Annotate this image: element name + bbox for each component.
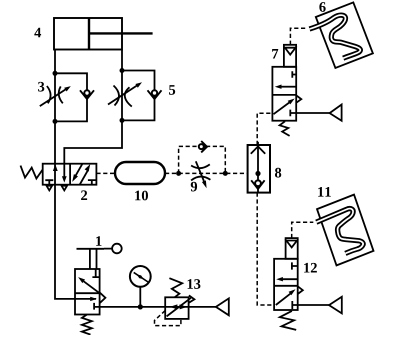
valve V12 pilot head box: [286, 238, 298, 259]
valve 8 up chevron: [251, 146, 265, 153]
regulator 13 spring: [169, 278, 182, 297]
pilot dashed wire 8 down to valve 12: [257, 193, 274, 305]
node dot valve3 bottom: [53, 119, 58, 124]
valve V12 exhaust triangle: [329, 297, 342, 314]
check valve of 9: [199, 141, 208, 152]
sensor 6 frame: [316, 2, 373, 68]
valve V12 upper left arrow: [276, 277, 298, 281]
valve V1 spring: [82, 315, 92, 335]
exhaust triangle bottom line: [216, 298, 229, 315]
flow control valve 5 loop: [122, 71, 155, 121]
valve V12 lower diagonal arrow: [276, 289, 296, 305]
valve V7 spring: [280, 121, 290, 136]
valve V7 exit chevron: [296, 95, 301, 102]
node dot valve5 bottom: [120, 118, 125, 123]
node dot gauge: [138, 304, 143, 309]
wire right leg from cylinder to valve 2 top: [64, 50, 122, 164]
cylinder C4 body: [54, 18, 153, 50]
dashed wire 10 to 8: [165, 172, 248, 174]
throttle 9 bypass dashed loop: [179, 146, 226, 173]
label 9: [191, 182, 197, 192]
sensor 11 tube: [316, 209, 363, 254]
pilot dashed wire 8 up to valve 7: [257, 113, 272, 145]
valve V7 main body: [272, 67, 296, 121]
label 3: [38, 82, 44, 92]
valve V2 body: [43, 164, 97, 185]
shuttle valve 8 body: [248, 145, 270, 193]
label 4: [34, 28, 41, 38]
label 1: [96, 236, 101, 246]
valve V7 exhaust triangle: [330, 105, 342, 121]
valve V2 exhaust triangle 1: [47, 186, 53, 191]
valve V7 upper left arrow: [275, 85, 296, 89]
valve V2 blocked port T right: [88, 180, 96, 185]
label 11: [318, 187, 331, 197]
valve V2 blocked port T left: [45, 180, 53, 185]
regulator 13 body: [165, 297, 188, 319]
check valve of 8: [251, 180, 264, 189]
pilot dashed wire valve2 to receiver 10: [96, 172, 115, 174]
valve V2 diagonal arrow B (head top-right): [80, 164, 91, 185]
node dot valve3 top: [53, 71, 58, 76]
label 12: [304, 263, 317, 273]
valve V2 spring: [21, 166, 43, 179]
node dot in valve 8: [255, 171, 260, 176]
valve V7 lower diagonal arrow: [274, 99, 295, 115]
valve V7 nozzle triangle: [285, 48, 296, 55]
valve V1 main body: [75, 269, 100, 315]
label 8: [275, 168, 281, 178]
valve V1 port T and bottom output wire: [94, 303, 216, 310]
throttle of 5: [108, 82, 142, 106]
label 10: [135, 191, 148, 201]
valve V2 exhaust triangle 2: [62, 186, 68, 191]
valve V12 exit chevron: [298, 286, 303, 294]
valve V1 upper diagonal arrow: [78, 277, 100, 293]
receiver 10: [115, 162, 165, 184]
label 6: [319, 2, 325, 12]
flow control valve 3 loop: [55, 73, 87, 121]
valve 8 internal line: [257, 142, 259, 193]
valve V2 down arrow: [62, 164, 67, 183]
valve V2 diagonal arrow A (head bottom-left): [72, 164, 82, 182]
node dot left of throttle 9: [176, 171, 181, 176]
label 5: [169, 85, 175, 95]
pilot dashed wire 6 to valve 7: [290, 28, 307, 45]
regulator 13 dashed pilot feedback: [155, 311, 181, 326]
label 7: [272, 49, 278, 58]
valve V7 pilot head box: [284, 45, 296, 67]
check valve of 5: [148, 90, 162, 100]
node dot right of throttle 9: [223, 171, 228, 176]
regulator 13 double arrow heads: [170, 304, 178, 309]
sensor 6 tube: [310, 15, 361, 58]
valve V12 port T and output wire: [292, 301, 329, 309]
label 13: [188, 279, 201, 289]
valve V1 lower arrow head: [90, 297, 97, 301]
label 2: [81, 190, 87, 200]
valve V7 port T and output wire: [290, 110, 329, 117]
valve V1 exit chevron: [100, 292, 106, 303]
regulator 13 diagonal adjust arrow: [167, 295, 195, 316]
valve V1 upper blocked port T: [92, 269, 99, 277]
valve V12 upper blocked port: [292, 262, 298, 269]
sensor 11 frame: [317, 195, 374, 266]
check valve of 3: [80, 90, 94, 100]
valve V12 main body: [274, 259, 298, 310]
pilot dashed wire 11 to valve 12: [292, 222, 314, 238]
valve V2 up arrow head: [53, 164, 58, 171]
valve V12 nozzle triangle: [286, 241, 297, 248]
throttle of 3: [40, 86, 71, 106]
throttle 9 arcs and arrow: [191, 161, 210, 188]
valve V7 upper blocked port: [292, 71, 296, 77]
node dot valve5 top: [120, 68, 125, 73]
valve V1 push button: [77, 244, 122, 269]
pressure gauge: [130, 266, 151, 307]
valve V12 spring: [280, 311, 296, 330]
wire left leg from cylinder through valve 2 down to valve 1: [55, 50, 96, 299]
